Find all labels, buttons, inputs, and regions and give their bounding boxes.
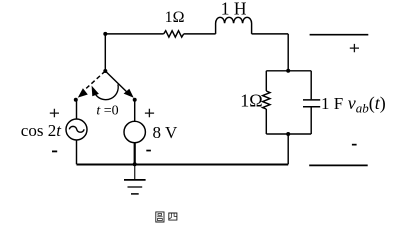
wire R2 branch lower lead [265, 109, 267, 134]
wire right vertical down to node A [287, 34, 289, 71]
svg-text:1Ω: 1Ω [165, 9, 185, 26]
terminal bar bottom right [309, 164, 368, 166]
wire AC source lower lead [76, 140, 78, 164]
switch motion arc [96, 84, 118, 99]
wire parallel top rail [266, 70, 311, 72]
minus sign right terminal [352, 144, 357, 146]
plus sign 8V source [145, 109, 154, 118]
node dot switch left contact [74, 98, 78, 102]
ground bar 2 [128, 186, 143, 188]
wire between R1 and inductor L1 [184, 33, 216, 35]
node dot ground junction [133, 162, 137, 166]
wire inductor to right corner [252, 33, 289, 35]
svg-text:cos 2t: cos 2t [21, 121, 62, 140]
DC source V2 circle (8V) [124, 121, 145, 142]
node dot top corner [103, 32, 107, 36]
wire 8V source upper lead [134, 100, 136, 122]
svg-text:1 F: 1 F [321, 94, 343, 113]
wire AC source upper lead [76, 100, 78, 119]
wire right branch down to bottom [287, 134, 289, 164]
capacitor C1 top plate [303, 99, 320, 101]
wire R2 branch upper lead [265, 71, 267, 91]
AC source V1 circle [66, 119, 87, 140]
svg-text:vab(t): vab(t) [348, 93, 386, 116]
wire top horizontal left (corner to resistor R1) [105, 33, 163, 35]
minus sign AC source [52, 151, 57, 153]
node dot B (parallel bottom) [286, 132, 290, 136]
plus sign AC source [50, 109, 59, 118]
svg-text:1 H: 1 H [221, 0, 247, 18]
svg-text:t =0: t =0 [96, 104, 118, 119]
AC source sine symbol [69, 126, 84, 132]
figure caption glyph 圖 [156, 212, 164, 222]
wire C1 branch upper lead [310, 71, 312, 100]
switch motion-arc arrowhead [92, 86, 99, 97]
wire bottom horizontal [77, 164, 289, 166]
capacitor C1 bottom plate [303, 106, 320, 108]
ground bar 1 [124, 179, 146, 181]
switch solid arm (to 8V side) [105, 71, 126, 92]
switch dashed-arm arrowhead [78, 88, 88, 97]
node dot switch pivot [103, 69, 107, 73]
wire 8V source lower lead (thick) [134, 143, 136, 165]
wire parallel bottom rail [266, 133, 311, 135]
plus sign right terminal [350, 44, 359, 52]
minus sign 8V source [146, 150, 151, 152]
ground stem [134, 164, 136, 179]
svg-text:8 V: 8 V [153, 123, 178, 142]
resistor R2 1ohm (vertical zigzag) [263, 91, 270, 109]
wire top-left vertical (pivot to top corner) [104, 34, 106, 71]
switch dashed arm (to AC side) [86, 71, 105, 88]
inductor L1 1H (four humps) [216, 17, 252, 34]
node dot switch right contact [133, 98, 137, 102]
resistor R1 1ohm (top, horizontal zigzag) [164, 31, 184, 37]
figure caption glyph 四 [169, 213, 177, 220]
wire C1 branch lower lead [310, 107, 312, 134]
ground bar 3 [131, 193, 139, 195]
node dot A (parallel top) [286, 69, 290, 73]
svg-text:1Ω: 1Ω [240, 91, 262, 111]
terminal bar top right [310, 34, 369, 36]
switch solid-arm arrowhead [124, 89, 134, 98]
